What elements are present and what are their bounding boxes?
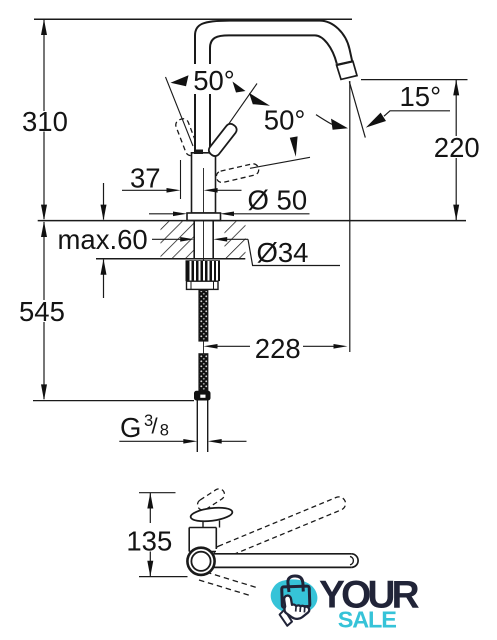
svg-text:Ø 50: Ø 50 [248, 185, 308, 216]
svg-text:37: 37 [130, 162, 161, 193]
svg-text:8: 8 [160, 422, 169, 440]
svg-text:135: 135 [126, 526, 172, 557]
svg-text:50°: 50° [193, 65, 235, 96]
svg-text:/: / [152, 414, 159, 439]
svg-text:SALE: SALE [338, 606, 396, 632]
svg-text:220: 220 [434, 132, 480, 163]
svg-text:310: 310 [22, 106, 68, 137]
svg-text:50°: 50° [264, 105, 306, 136]
svg-text:228: 228 [255, 333, 301, 364]
svg-text:Ø34: Ø34 [257, 237, 309, 268]
svg-text:15°: 15° [400, 81, 442, 112]
svg-text:max.60: max.60 [58, 224, 148, 255]
svg-text:G: G [120, 412, 141, 443]
svg-text:545: 545 [19, 296, 65, 327]
